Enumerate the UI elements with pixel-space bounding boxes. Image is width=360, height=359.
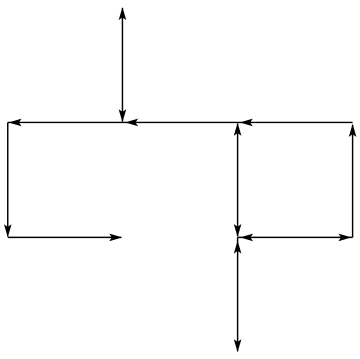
wire: middle vertical double-headed arrow — [234, 123, 242, 237]
wire: top vertical double-headed arrow — [119, 7, 127, 122]
wire: left vertical arrow pointing down — [4, 122, 12, 237]
wire: top horizontal segment arrow pointing left into right junction — [238, 119, 353, 127]
wire: top horizontal segment arrow pointing left into mid junction — [122, 119, 237, 127]
wire: bottom horizontal double-headed arrow — [238, 234, 353, 242]
wire: bottom vertical double-headed arrow — [234, 237, 242, 352]
wire: top horizontal segment with arrow to left end — [8, 119, 123, 127]
wire: right vertical arrow pointing up — [349, 124, 357, 238]
wire: lower-left horizontal arrow pointing right — [8, 234, 123, 242]
